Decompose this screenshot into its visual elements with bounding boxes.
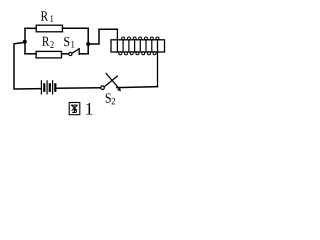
- battery plate long 3: [52, 81, 54, 94]
- label S1: [64, 37, 69, 46]
- wire R1 branch left: [25, 27, 36, 29]
- junction node dot left bus: [23, 40, 27, 44]
- coil input strand descending: [116, 29, 118, 52]
- label R1: [41, 11, 48, 20]
- coil top turn bumps: [122, 37, 159, 40]
- wire R2 branch left: [25, 53, 36, 55]
- switch S2 pivot circle: [101, 86, 105, 90]
- battery plate long 1: [40, 81, 42, 94]
- label figure caption number 1: [86, 103, 92, 115]
- switch S2 closing arrow shaft: [106, 74, 120, 90]
- wire R2 to S1: [62, 53, 69, 55]
- wire S1 right: [79, 53, 88, 55]
- battery plate short 1: [43, 84, 45, 91]
- wire R1 branch right: [63, 27, 89, 29]
- wire from left node to left edge and down to bottom: [14, 42, 41, 89]
- coil exit strand down to bottom wire: [157, 40, 159, 87]
- switch S1 blade: [72, 49, 79, 53]
- wire tap from junction to coil entry: [88, 29, 117, 44]
- battery plate long 2: [46, 81, 48, 94]
- inductor coil core rectangle: [111, 40, 165, 52]
- battery plate short 2: [49, 84, 51, 91]
- wire right bus vertical: [87, 28, 89, 54]
- label S2: [106, 93, 111, 102]
- label R2: [42, 37, 49, 46]
- switch S2 blade: [104, 76, 117, 87]
- wire battery to S2: [56, 87, 100, 90]
- battery plate short 3: [54, 84, 56, 91]
- wire S2 right to coil exit corner: [117, 87, 158, 88]
- switch S1 pivot circle: [69, 52, 72, 55]
- coil winding vertical strands: [123, 40, 152, 52]
- resistor R1: [36, 25, 62, 32]
- junction node dot right bus: [86, 42, 90, 46]
- label figure caption CJK char tu (drawn): [69, 103, 80, 115]
- resistor R2: [36, 51, 61, 58]
- switch S1 contact tick: [78, 49, 80, 55]
- coil bottom turn bumps: [119, 52, 156, 55]
- switch S2 arrowhead: [117, 87, 121, 91]
- wire left bus vertical: [24, 28, 26, 54]
